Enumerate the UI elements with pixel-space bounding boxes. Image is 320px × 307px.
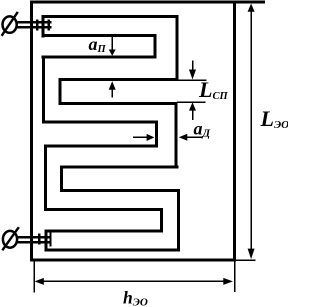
meander bar C left end V2: [59, 78, 62, 105]
dimension L_SP upper extension line: [179, 80, 207, 82]
label L_EO: [260, 106, 290, 131]
meander bar D top edge H6: [42, 121, 158, 124]
terminal 1 connection tick inner: [48, 19, 50, 30]
meander bar A left end: [41, 15, 44, 37]
meander bar G left end: [44, 229, 47, 251]
terminal 1 lower lead wire: [17, 26, 52, 29]
terminal 1 circle with slash: [2, 12, 18, 36]
dimension L_EO down arrowhead: [248, 249, 255, 260]
label a_P: [89, 34, 107, 55]
outer panel rectangle right edge: [233, 1, 236, 262]
terminal 2 connection tick inner: [49, 233, 51, 247]
label a_D: [194, 118, 211, 139]
meander bar A bottom edge H2: [41, 34, 156, 37]
svg-text:aП: aП: [89, 34, 107, 55]
dimension a_D left arrow: [179, 134, 202, 141]
svg-text:LЭО: LЭО: [260, 106, 289, 131]
meander bar A top edge H1: [41, 15, 178, 18]
label L_SP: [198, 77, 228, 102]
meander bar C top edge H4: [59, 78, 179, 81]
outer panel rectangle top edge with extension line: [30, 1, 265, 4]
meander right outer vertical V4: [176, 15, 179, 81]
outer panel rectangle left edge: [30, 1, 33, 262]
dimension a_D right arrow: [133, 134, 154, 141]
svg-text:hЭО: hЭО: [123, 288, 148, 307]
dimension h_EO right arrowhead: [223, 278, 233, 285]
meander right vertical V6: [174, 102, 177, 168]
dimension L_SP lower extension line: [177, 102, 205, 104]
extension line below left edge for h dimension: [34, 262, 36, 293]
dimension h_EO horizontal line: [40, 281, 226, 283]
dimension a_P down arrow: [109, 37, 116, 56]
svg-text:aД: aД: [194, 118, 211, 139]
svg-text:LСП: LСП: [198, 77, 228, 102]
terminal 2 circle with slash: [2, 227, 19, 250]
meander bar D right end V7: [155, 121, 158, 148]
label h_EO: [123, 288, 148, 307]
meander bar G bottom edge H13: [44, 249, 180, 252]
meander bar C bottom edge H5: [59, 102, 178, 105]
dimension a_P up arrow at bar C top edge: [109, 81, 116, 97]
meander bar F right end V12: [160, 208, 163, 232]
terminal 1 upper lead wire: [17, 21, 52, 24]
terminal 2 lower lead wire: [17, 241, 52, 244]
meander right outer vertical V10: [177, 189, 180, 252]
meander left outer vertical V1: [42, 56, 45, 124]
terminal 1 connection tick outer: [36, 19, 38, 30]
terminal 2 connection tick outer: [38, 234, 40, 245]
meander right inner vertical V3: [153, 34, 156, 58]
dimension L_EO up arrowhead: [248, 4, 255, 12]
outer panel rectangle bottom edge with extension line: [30, 258, 256, 261]
meander bar E bottom edge H10: [60, 189, 180, 192]
meander bar D bottom edge H8: [44, 145, 158, 148]
meander left inner vertical V9: [60, 165, 63, 192]
dimension h_EO left arrowhead: [35, 278, 44, 285]
meander left vertical V8: [44, 145, 47, 211]
meander bar E top edge H9: [60, 165, 179, 168]
dimension L_SP up arrow: [189, 102, 196, 120]
extension line below right edge for h dimension: [234, 262, 236, 293]
dimension L_EO vertical line: [250, 11, 252, 250]
dimension L_SP down arrow: [189, 60, 196, 79]
meander bar B top edge H3: [41, 56, 156, 59]
meander bar G top edge H12: [44, 229, 162, 232]
terminal 2 upper lead wire: [17, 236, 52, 239]
meander bar F top edge H11: [44, 208, 163, 211]
